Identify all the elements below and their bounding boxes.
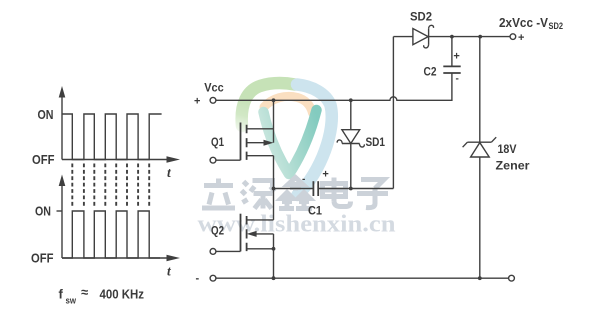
svg-text:Q1: Q1 — [211, 135, 224, 149]
svg-text:f: f — [59, 287, 64, 302]
svg-text:+: + — [194, 96, 200, 108]
svg-text:Q2: Q2 — [211, 224, 224, 238]
svg-text:C2: C2 — [424, 64, 437, 78]
svg-text:-: - — [196, 273, 200, 285]
svg-text:Vcc: Vcc — [204, 81, 224, 95]
svg-text:+: + — [453, 51, 459, 63]
svg-text:-: - — [302, 174, 305, 185]
svg-text:≈: ≈ — [81, 285, 88, 300]
svg-text:-: - — [456, 74, 459, 85]
svg-text:OFF: OFF — [32, 152, 55, 167]
svg-text:400 KHz: 400 KHz — [100, 287, 145, 302]
svg-text:t: t — [167, 165, 172, 180]
svg-text:+: + — [518, 32, 524, 44]
svg-text:OFF: OFF — [31, 250, 54, 265]
svg-text:SD2: SD2 — [410, 9, 432, 23]
svg-text:SD1: SD1 — [366, 135, 386, 149]
svg-text:t: t — [167, 264, 172, 279]
svg-text:2xVcc -V: 2xVcc -V — [499, 15, 548, 30]
svg-text:SD2: SD2 — [549, 21, 564, 32]
svg-text:sw: sw — [66, 296, 77, 307]
svg-text:C1: C1 — [308, 203, 322, 217]
svg-text:+: + — [322, 169, 328, 181]
svg-text:Zener: Zener — [496, 159, 530, 173]
svg-text:ON: ON — [35, 204, 51, 219]
svg-text:18V: 18V — [498, 142, 517, 156]
svg-text:ON: ON — [38, 107, 54, 122]
svg-text:www.lishenxin.cn: www.lishenxin.cn — [198, 212, 396, 238]
